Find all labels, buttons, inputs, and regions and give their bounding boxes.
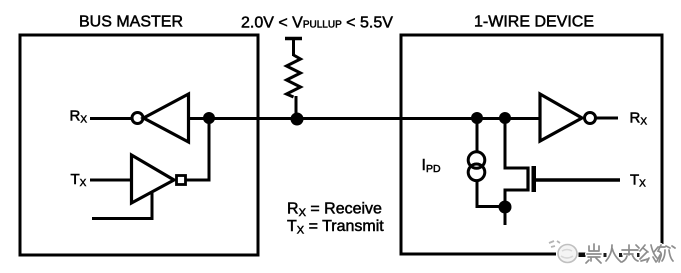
resistor R pullup xyxy=(287,55,301,97)
watermark line dash xyxy=(579,253,656,258)
wire resistor bottom stem xyxy=(295,96,298,119)
label RX (bus master) xyxy=(70,107,88,125)
label RX (1-wire device) xyxy=(630,110,648,128)
wire RX lead (device) xyxy=(596,117,618,120)
node pullup junction xyxy=(291,113,304,126)
inverter U3 bubble xyxy=(585,113,596,124)
label IPD xyxy=(422,157,441,175)
watermark logo xyxy=(549,241,577,263)
label TX (bus master) xyxy=(71,171,87,189)
buffer U2 output square bubble xyxy=(177,176,186,185)
inverter U1 bubble xyxy=(132,113,143,124)
buffer U2 (bus master transmit) xyxy=(132,155,175,203)
wire TX lead xyxy=(90,179,132,182)
1-wire device box xyxy=(401,35,662,254)
legend TX = Transmit xyxy=(287,218,384,237)
wire gate lead to TX xyxy=(536,178,620,182)
label TX (1-wire device) xyxy=(630,172,646,190)
transistor Q1 drain path xyxy=(505,118,528,204)
inverter U3 (1-wire device receive) xyxy=(540,94,582,141)
node RX junction xyxy=(203,112,215,124)
transistor Q1 channel bar xyxy=(526,167,529,192)
node bus junction A xyxy=(471,112,483,124)
transistor Q1 gate bar xyxy=(532,166,537,192)
wire source stub xyxy=(504,207,507,225)
current source IPD xyxy=(468,152,485,181)
bus master box xyxy=(20,35,258,255)
svg-text:1-WIRE DEVICE: 1-WIRE DEVICE xyxy=(474,14,594,31)
inverter U1 (bus master receive) xyxy=(144,94,189,142)
wire RX lead xyxy=(90,117,133,120)
node source junction xyxy=(499,201,512,214)
svg-text:BUS MASTER: BUS MASTER xyxy=(79,14,183,31)
legend RX = Receive xyxy=(287,201,382,220)
label 1-WIRE DEVICE xyxy=(474,14,594,31)
label VPULLUP range xyxy=(241,15,393,32)
wire current source bottom xyxy=(477,180,505,207)
label BUS MASTER xyxy=(79,14,183,31)
wire resistor top stem xyxy=(292,39,295,57)
node bus junction B xyxy=(499,112,511,124)
wire current source top xyxy=(476,118,479,153)
wire TX output to bus xyxy=(186,118,209,180)
watermark text 嵌入式系统 xyxy=(586,244,675,263)
pullup supply bar xyxy=(285,37,302,41)
wire 1-wire bus line xyxy=(188,117,540,120)
wire buffer enable xyxy=(92,193,152,219)
watermark background patch xyxy=(556,244,674,265)
